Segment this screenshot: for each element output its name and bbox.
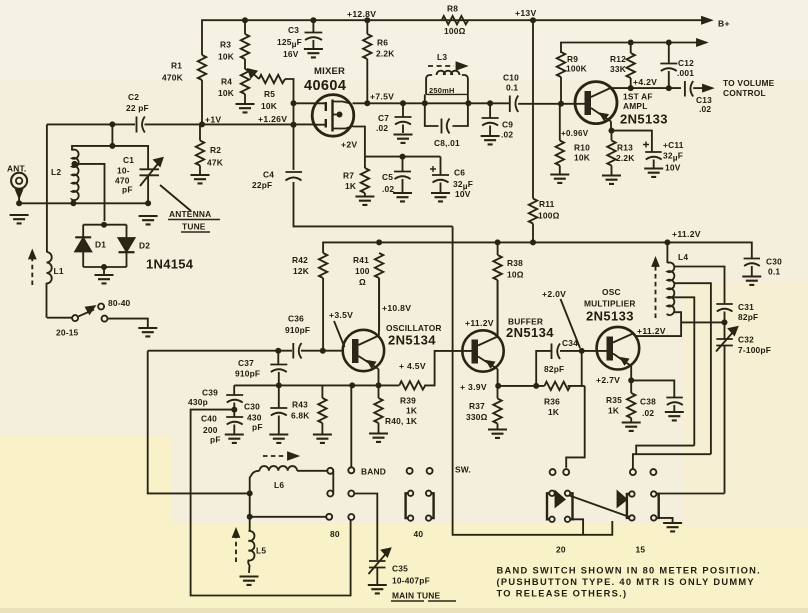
svg-text:C32: C32 (738, 335, 754, 345)
svg-text:R4: R4 (221, 77, 232, 87)
svg-text:+2.0V: +2.0V (542, 289, 566, 299)
wire gate1 into mixer (294, 102, 314, 104)
capacitor C5 (394, 157, 411, 192)
wire R6 top/bottom (366, 20, 368, 103)
resistor R37 (497, 386, 499, 399)
node dot C1 bottom (145, 200, 151, 206)
svg-text:.02: .02 (376, 123, 388, 133)
wire antenna bottom run (19, 196, 148, 203)
svg-text:+4.2V: +4.2V (633, 77, 657, 87)
svg-text:10Ω: 10Ω (507, 270, 524, 280)
svg-text:B+: B+ (718, 19, 730, 29)
svg-text:10K: 10K (218, 52, 234, 62)
switch 80-40 lever (47, 317, 72, 319)
svg-text:0.1: 0.1 (768, 267, 780, 277)
node dot R5/C4 column (291, 122, 297, 128)
svg-text:L5: L5 (256, 546, 266, 556)
node B+ arrow (702, 17, 711, 23)
transistor Q3 oscillator 2N5134 (343, 330, 384, 371)
svg-text:.02: .02 (382, 184, 394, 194)
svg-text:10-407pF: 10-407pF (392, 576, 430, 586)
wire bridge top rail (83, 224, 126, 226)
resistor R7 (364, 157, 366, 168)
svg-text:430: 430 (247, 413, 262, 423)
svg-text:C30: C30 (766, 257, 782, 267)
svg-text:2N5134: 2N5134 (388, 333, 436, 348)
ground under C38 (665, 412, 684, 420)
transistor Q5 osc multiplier 2N5133 (597, 327, 640, 370)
svg-text:C38: C38 (640, 397, 656, 407)
ground under L5 (240, 577, 259, 585)
svg-text:430p: 430p (188, 397, 208, 407)
svg-text:C3: C3 (288, 25, 299, 35)
svg-text:R5: R5 (264, 89, 275, 99)
capacitor C1 variable (140, 169, 160, 203)
ground under C30 (742, 277, 761, 285)
switch 40 brackets (408, 491, 413, 496)
ground under C30b (269, 435, 288, 443)
svg-text:MAIN TUNE: MAIN TUNE (392, 591, 441, 601)
svg-text:C39: C39 (202, 388, 218, 398)
svg-text:AMPL: AMPL (623, 101, 648, 111)
wire L4 tap1 to C31 (674, 267, 725, 304)
svg-text:+10.8V: +10.8V (382, 303, 411, 313)
wire +3.9V rail (498, 385, 585, 387)
ground right of switch (138, 328, 157, 336)
inductor L2 (72, 150, 79, 203)
mosfet U1 mixer 40604 (312, 95, 354, 137)
ground under C11 (644, 169, 663, 177)
node antenna arrow down (16, 190, 22, 198)
svg-text:R2: R2 (210, 145, 221, 155)
resistor R11 (529, 199, 537, 224)
svg-text:100: 100 (355, 266, 370, 276)
wire +13V drop R11 (532, 20, 534, 198)
svg-text:ANT.: ANT. (7, 164, 26, 174)
wire buffer emitter down (497, 369, 499, 386)
svg-text:20: 20 (556, 545, 566, 555)
wire R5 right elbow down to gates (285, 79, 294, 170)
wire R2 top/bottom (199, 124, 201, 174)
svg-text:TO VOLUME: TO VOLUME (723, 78, 775, 88)
svg-text:pF: pF (210, 435, 221, 445)
svg-text:C40: C40 (201, 414, 217, 424)
node wedge 20 (556, 492, 565, 507)
transistor Q4 buffer 2N5134 (462, 330, 503, 371)
wire C34 left riser (536, 351, 551, 386)
svg-text:C7: C7 (378, 113, 389, 123)
ground under R40 (369, 434, 388, 442)
svg-text:2N5133: 2N5133 (620, 112, 668, 127)
switch 20 contacts (550, 469, 556, 475)
svg-text:C35: C35 (392, 564, 408, 574)
svg-text:2N5133: 2N5133 (586, 309, 634, 324)
svg-text:(PUSHBUTTON TYPE. 40 MTR IS ON: (PUSHBUTTON TYPE. 40 MTR IS ONLY DUMMY (497, 577, 755, 587)
resistor R41 (375, 253, 383, 278)
svg-text:100Ω: 100Ω (444, 26, 466, 36)
wire C31 bottom left link (681, 321, 724, 323)
resistor R9 (557, 52, 565, 77)
svg-text:+13V: +13V (515, 8, 537, 18)
capacitor C31 (716, 304, 733, 322)
wire L4 tap3 down (674, 297, 695, 445)
svg-text:+1.26V: +1.26V (258, 114, 287, 124)
node L6 dashed arrow (263, 455, 285, 457)
svg-text:R39: R39 (400, 396, 416, 406)
resistor R36 horizontal (545, 382, 571, 390)
wire tap2 elbow to contact (633, 454, 711, 469)
capacitor C3 (305, 20, 323, 48)
switch 40 dummy contacts (407, 468, 413, 474)
ground under C5 (393, 193, 412, 201)
wire multiplier emitter down (630, 366, 632, 380)
svg-text:R10: R10 (574, 143, 590, 153)
svg-text:.02: .02 (699, 104, 711, 114)
node dot R12 top (628, 40, 634, 46)
svg-text:C12: C12 (678, 58, 694, 68)
svg-text:MIXER: MIXER (314, 66, 345, 77)
svg-text:SW.: SW. (455, 465, 471, 475)
node dot L2 tap (72, 161, 78, 167)
resistor R38 (497, 242, 499, 255)
node dot rail C3 (310, 17, 316, 23)
svg-text:7-100pF: 7-100pF (738, 345, 771, 355)
ground under R2 (191, 175, 210, 183)
wire buffer collector up to R38 (497, 280, 499, 337)
node junction gate1 (291, 100, 297, 106)
svg-text:910pF: 910pF (235, 369, 260, 379)
svg-text:33K: 33K (610, 64, 626, 74)
node dot rail R3 (242, 17, 248, 23)
svg-text:10-: 10- (117, 166, 130, 176)
capacitor C34 (552, 344, 561, 360)
inductor L4 (666, 242, 668, 263)
resistor R40 (378, 385, 380, 398)
capacitor C38 (631, 380, 683, 411)
node dot osc emitter (376, 382, 382, 388)
capacitor C12 (660, 43, 677, 89)
svg-text:Ω: Ω (359, 277, 366, 287)
wire C4 below to bottom run (294, 182, 453, 226)
node R4 wiper arrow (253, 73, 260, 79)
switch 20 brackets (549, 491, 554, 496)
ground under R35 (622, 423, 641, 431)
inductor L5 (249, 517, 251, 531)
node dot C12 top (666, 40, 672, 46)
svg-text:C10: C10 (503, 73, 519, 83)
wire base node down (581, 351, 583, 386)
resistor R2 (196, 141, 204, 166)
wire C34 to base node (560, 350, 607, 352)
resistor R35 (630, 380, 632, 393)
wire osc collector to R41 (378, 278, 380, 336)
wire L5 junction to contact (250, 516, 326, 518)
ground under C7 (394, 135, 413, 143)
wire L2 box top (72, 124, 148, 169)
node L4 dashed arrow (655, 266, 657, 318)
node dot C31 bottom (722, 319, 728, 325)
wire +4.5V emitter rail (234, 384, 399, 386)
switch 15 contacts (630, 469, 636, 475)
node pointer +3.5V (334, 321, 345, 347)
resistor R12 (630, 43, 632, 54)
node L3 dashed arrow (428, 65, 454, 67)
wire mixer source elbow (353, 127, 365, 157)
wire R39 right elbow to buffer base (424, 351, 471, 386)
svg-text:R36: R36 (544, 397, 560, 407)
capacitor C13 (685, 81, 693, 97)
svg-text:100Ω: 100Ω (538, 211, 560, 221)
wire bridge to ground (103, 267, 105, 274)
svg-text:R41: R41 (353, 255, 369, 265)
node dot R38 top (495, 239, 501, 245)
node dot C5 (400, 154, 406, 160)
svg-text:C31: C31 (738, 302, 754, 312)
wire band mid to C35 (354, 494, 377, 561)
svg-text:R12: R12 (610, 54, 626, 64)
wire L4 bottom to collector (635, 312, 681, 336)
svg-text:L1: L1 (54, 266, 64, 276)
svg-text:+3.5V: +3.5V (329, 310, 353, 320)
antenna connector (11, 173, 27, 189)
svg-text:.02: .02 (501, 130, 513, 140)
svg-text:47K: 47K (207, 158, 223, 168)
svg-text:10K: 10K (261, 101, 277, 111)
resistor R8 (442, 16, 468, 24)
wire R1 bottom to +1V node (201, 80, 203, 124)
svg-text:2N5134: 2N5134 (506, 325, 554, 340)
svg-text:C9: C9 (502, 120, 513, 130)
svg-text:L6: L6 (274, 480, 284, 490)
capacitor C8 tank (425, 103, 468, 133)
svg-text:C30: C30 (244, 402, 260, 412)
svg-text:R37: R37 (469, 401, 485, 411)
node dot R6 bottom (364, 100, 370, 106)
svg-text:C2: C2 (128, 92, 139, 102)
svg-text:BAND: BAND (361, 467, 386, 477)
ground under R4 (236, 104, 255, 112)
resistor R4 (pot) (241, 69, 249, 94)
ground under R10 (550, 175, 569, 183)
svg-text:R7: R7 (343, 171, 354, 181)
svg-text:330Ω: 330Ω (466, 412, 488, 422)
resistor R13 (611, 131, 613, 141)
capacitor C32 variable (716, 322, 733, 493)
svg-text:C36: C36 (288, 314, 304, 324)
svg-text:R42: R42 (292, 255, 308, 265)
svg-text:0.1: 0.1 (506, 83, 518, 93)
node dot L5 top (247, 514, 253, 520)
node dot emitter +2.7V (628, 377, 634, 383)
ground under R7 (355, 197, 374, 205)
svg-text:.001: .001 (677, 68, 694, 78)
ground right of 15 (663, 523, 682, 531)
svg-text:C6: C6 (454, 168, 465, 178)
ground under C3 (304, 49, 323, 57)
ground under R37 (488, 430, 507, 438)
svg-text:10K: 10K (218, 88, 234, 98)
svg-text:10K: 10K (574, 153, 590, 163)
svg-text:10V: 10V (665, 163, 681, 173)
wire C4 long vertical to SW (453, 226, 613, 534)
node dot R41 top (376, 239, 382, 245)
capacitor C11 electrolytic (645, 143, 662, 168)
resistor R10 (559, 104, 561, 141)
resistor R39 horizontal (399, 381, 425, 389)
wire second rail to B+ (561, 43, 706, 54)
svg-text:1K: 1K (406, 406, 417, 416)
svg-text:+7.5V: +7.5V (370, 92, 394, 102)
wire collector node (612, 87, 682, 89)
svg-text:82pF: 82pF (544, 364, 564, 374)
svg-text:D2: D2 (139, 241, 150, 251)
wire R4 to ground (244, 94, 246, 104)
node dot C12 bottom (666, 85, 672, 91)
node L1 dashed arrow (31, 259, 33, 285)
inductor L3 with shield box (425, 94, 468, 103)
diode D2 (126, 225, 128, 238)
wire top supply rail +12.8V (202, 20, 711, 55)
node dot buffer emitter (495, 383, 501, 389)
wire emitter node (610, 122, 612, 131)
svg-text:C5: C5 (382, 172, 393, 182)
node junction gate2 (291, 122, 297, 128)
capacitor C36 (293, 343, 301, 359)
wire source bypass run (365, 156, 441, 158)
svg-text:R6: R6 (377, 38, 388, 48)
svg-text:1K: 1K (548, 407, 559, 417)
svg-text:ANTENNA: ANTENNA (169, 209, 211, 219)
capacitor C39 (226, 385, 243, 409)
inductor L6 (260, 466, 298, 471)
ground under C35 (368, 585, 387, 593)
node pointer +2.0V (561, 299, 581, 348)
wire C10 to base (518, 103, 584, 105)
svg-text:TO RELEASE OTHERS.): TO RELEASE OTHERS.) (497, 589, 628, 599)
svg-text:.02: .02 (642, 408, 654, 418)
svg-text:100K: 100K (566, 64, 587, 74)
svg-text:C1: C1 (123, 155, 134, 165)
svg-text:2.2K: 2.2K (616, 153, 635, 163)
capacitor C7 (395, 103, 412, 133)
node dot ant (16, 200, 22, 206)
svg-text:R40, 1K: R40, 1K (385, 416, 417, 426)
svg-text:C37: C37 (238, 358, 254, 368)
svg-text:+ 4.5V: + 4.5V (399, 361, 426, 371)
svg-text:+C11: +C11 (663, 140, 684, 150)
wire tap3 elbow to contact (636, 446, 694, 455)
svg-text:910pF: 910pF (285, 325, 310, 335)
node dot rail R6 (364, 17, 370, 23)
svg-text:TUNE: TUNE (182, 222, 206, 232)
svg-text:82pF: 82pF (738, 312, 758, 322)
svg-text:+0.96V: +0.96V (561, 129, 589, 138)
node dot R1/R2 (199, 121, 205, 127)
svg-text:1K: 1K (345, 181, 356, 191)
ground under R13 (602, 176, 621, 184)
capacitor C6 electrolytic (432, 157, 449, 192)
svg-text:1ST AF: 1ST AF (623, 92, 653, 102)
capacitor C4 (286, 172, 303, 181)
svg-text:470K: 470K (162, 73, 183, 83)
node wedge 15 (618, 492, 627, 507)
svg-text:200: 200 (203, 425, 218, 435)
wire L2 tap to bridge (74, 164, 105, 221)
capacitor C37 (270, 351, 287, 386)
node dot C34 left (533, 383, 539, 389)
wire left drop to L1 (46, 124, 48, 252)
node dot C39/C40 (231, 407, 237, 413)
node dot L2 box (109, 143, 115, 149)
svg-text:R13: R13 (617, 143, 633, 153)
wire C36 feed line (148, 350, 343, 352)
ground under C40 (225, 435, 244, 443)
svg-text:40604: 40604 (304, 78, 346, 94)
ground under C1 (139, 216, 158, 224)
ground under bridge (95, 275, 114, 283)
svg-text:R8: R8 (447, 4, 458, 14)
switch 20-15 contacts (102, 316, 108, 322)
svg-text:+12.8V: +12.8V (347, 9, 376, 19)
resistor R1 (198, 55, 206, 80)
wire +1V line C2 run (47, 123, 313, 125)
resistor R42 (319, 253, 327, 278)
node dot bridge top (101, 222, 107, 228)
svg-text:+2V: +2V (341, 140, 357, 150)
wire C39 junction west drop (191, 410, 351, 596)
node dot C7 (400, 100, 406, 106)
svg-text:2.2K: 2.2K (376, 49, 395, 59)
svg-text:pF: pF (252, 422, 263, 432)
svg-text:+ 3.9V: + 3.9V (460, 382, 487, 392)
svg-text:R9: R9 (567, 54, 578, 64)
ground under antenna (10, 215, 29, 223)
switch L6 right contacts (327, 468, 333, 474)
node arrow rail2 (697, 39, 706, 45)
svg-text:+11.2V: +11.2V (672, 229, 701, 239)
svg-text:R38: R38 (507, 258, 523, 268)
inductor L1 (47, 252, 52, 318)
ground under C6 (431, 193, 450, 201)
svg-text:+11.2V: +11.2V (465, 318, 494, 328)
wire L4 tap2 down (674, 283, 711, 454)
wire osc emitter down (378, 369, 380, 385)
resistor R6 (363, 34, 371, 59)
svg-text:D1: D1 (95, 240, 106, 250)
wire bridge bottom rail (83, 266, 126, 268)
wire R3 to R4 (244, 20, 246, 69)
capacitor C40 (226, 410, 243, 434)
wire R36 right down to switch (566, 386, 585, 468)
capacitor C35 variable (369, 561, 386, 584)
node dot R11 bottom (530, 239, 536, 245)
svg-text:R1: R1 (171, 61, 182, 71)
svg-text:20-15: 20-15 (56, 328, 79, 338)
node dot L6 left bottom (247, 490, 253, 496)
svg-text:L2: L2 (51, 167, 61, 177)
svg-text:L3: L3 (437, 52, 447, 62)
capacitor C30 0.1 (744, 259, 760, 276)
node dot L2 bottom (70, 200, 76, 206)
capacitor C2 (137, 117, 145, 133)
switch BAND contacts (350, 385, 352, 467)
wire 20 emitter link to SW line (570, 519, 583, 535)
diode D1 (82, 225, 84, 237)
node dot C37 top (275, 348, 281, 354)
wire lever 20 to 15 (570, 496, 630, 518)
svg-text:C4: C4 (263, 170, 274, 180)
svg-text:R11: R11 (539, 199, 555, 209)
